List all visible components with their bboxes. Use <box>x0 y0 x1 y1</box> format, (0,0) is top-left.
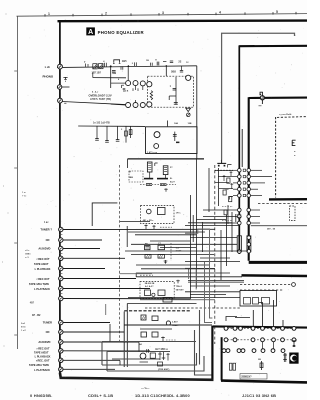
component column left of CN1 <box>223 175 226 181</box>
wire pair down x124 <box>123 312 125 368</box>
junction dots top wire <box>166 65 168 67</box>
bus dark dashed y310 <box>124 310 190 312</box>
switch contact bar S1-2 <box>157 178 168 180</box>
inductor L1 <box>114 60 120 63</box>
svg-text:AH? 1BB: AH? 1BB <box>155 348 165 351</box>
shield box C top edge <box>249 97 307 100</box>
resistor R3 zigzag <box>150 91 152 100</box>
dashed rail vertical x119 <box>119 165 121 344</box>
riaa res drop 4 <box>125 126 127 142</box>
extra marks top wire <box>151 63 153 66</box>
mesh vertical wires <box>190 195 192 299</box>
resistor R8 in TPA <box>158 290 165 296</box>
transistor Q11 <box>154 144 159 149</box>
svg-text:1B5: 1B5 <box>122 59 127 63</box>
svg-text:OVERLOAD? 2.2V: OVERLOAD? 2.2V <box>89 93 112 97</box>
wire drop from out <box>127 159 129 168</box>
svg-text:15B: 15B <box>188 123 192 125</box>
heavy bus H0 right <box>269 198 307 201</box>
svg-text:1BB: 1BB <box>112 73 117 75</box>
wire rec out L <box>63 257 125 259</box>
ground GND1 <box>221 160 223 164</box>
routing loop lines bottom-left <box>102 341 196 343</box>
sheet ruler left border <box>16 16 18 349</box>
wire out bottom <box>128 158 204 160</box>
svg-text:L PLAYBACK: L PLAYBACK <box>35 355 51 358</box>
svg-text:TUNER ?: TUNER ? <box>40 228 52 232</box>
mesh vertical wires extra <box>218 168 220 206</box>
wire aux spare L <box>63 298 191 300</box>
capacitor C1 <box>112 69 116 71</box>
svg-text:5HA?: 5HA? <box>176 250 182 253</box>
dashed net line horizontal right <box>277 116 307 119</box>
extra top section marks <box>86 64 89 67</box>
relay box RB1 <box>240 291 277 307</box>
svg-text:1BB1: 1BB1 <box>25 253 31 255</box>
terminal strip row 3 <box>222 349 226 353</box>
resistor R12 <box>152 332 158 337</box>
svg-text:5B8: 5B8 <box>171 69 176 73</box>
capacitor C6 in U1 <box>174 132 176 141</box>
dash marks y275 <box>140 274 153 276</box>
dashed sense line y284 <box>240 284 291 286</box>
dashed box S2 <box>141 206 175 224</box>
wire phono L signal <box>63 66 197 68</box>
transistor Q10 <box>154 132 160 138</box>
transistor Q6 <box>140 103 145 108</box>
label box output transistors <box>240 374 267 379</box>
board outline top edge <box>58 19 308 22</box>
svg-text:2B-B2 2B: 2B-B2 2B <box>145 283 155 285</box>
input jack PHONO GND <box>57 85 61 89</box>
svg-text:1 ac: 1 ac <box>44 222 49 224</box>
resistor R13 on wire y301 <box>163 298 172 303</box>
svg-text:CD: CD <box>46 238 50 242</box>
resistor R7 in TPA <box>145 290 151 296</box>
svg-text:TAPE A/EXT: TAPE A/EXT <box>34 263 49 266</box>
speaker terminal T1 <box>289 353 298 364</box>
dashed sense line y290 <box>240 289 284 291</box>
svg-text:TUNER: TUNER <box>43 321 52 325</box>
svg-text:5: 5 <box>276 10 278 14</box>
junction node N1 <box>110 65 112 67</box>
wire tuner L <box>63 228 215 230</box>
svg-text:A?R?L TAB? (7B): A?R?L TAB? (7B) <box>90 98 111 101</box>
svg-text:JJ1C1 03 3N2 6B: JJ1C1 03 3N2 6B <box>242 393 276 398</box>
ground GND3 triangle <box>186 108 191 111</box>
wire out right vertical <box>196 66 198 159</box>
cap C7 under wire <box>181 66 183 71</box>
svg-text:TA?GET: TA?GET <box>176 288 185 291</box>
svg-text:L PLAYBACK: L PLAYBACK <box>34 288 50 291</box>
capacitor pair C10 C11 <box>145 246 151 250</box>
wire eq inner stub <box>169 95 176 97</box>
amp box U1 <box>146 127 198 154</box>
resistor R11 <box>141 332 147 337</box>
dashed box TPA <box>140 282 174 299</box>
output box bottom edge <box>221 381 307 383</box>
pilot lamp P1 <box>147 209 152 214</box>
resistor R4 in S2 <box>158 208 166 215</box>
svg-text:1kB: 1kB <box>174 123 178 125</box>
wires R inputs <box>63 322 110 324</box>
svg-text:—’o—: —’o— <box>141 386 149 390</box>
stub marks near Q rows <box>123 88 125 92</box>
stub Q3 up <box>142 66 144 80</box>
svg-text:PHONO EQUALIZER: PHONO EQUALIZER <box>98 30 145 35</box>
jack J1 on shield box C <box>261 92 263 104</box>
output box inner left edge <box>221 337 223 380</box>
wire riaa bus <box>78 125 145 127</box>
transistor Q4 <box>126 103 131 108</box>
svg-text:(PRE AMP): (PRE AMP) <box>158 368 170 371</box>
svg-text:2-B5?: 2-B5? <box>172 322 179 324</box>
svg-text:1 w?: 1 w? <box>21 330 27 332</box>
capacitor C4 <box>173 87 177 89</box>
transistor Q9 <box>186 75 191 80</box>
wire rec out 2 L <box>63 278 136 280</box>
svg-text:r REC OUT: r REC OUT <box>37 258 50 261</box>
wire exit right y225 <box>251 225 307 227</box>
ruler tick marks top <box>44 14 46 17</box>
svg-text:4 . 4-v: 4 . 4-v <box>92 90 99 93</box>
input jacks L group <box>59 227 63 231</box>
shield box B left edge <box>238 45 240 254</box>
heavy bus H3 right <box>249 261 307 264</box>
svg-text:2 B: 2 B <box>125 91 129 93</box>
wire N1 down <box>110 66 112 88</box>
svg-text:CD: CD <box>46 330 50 334</box>
wire pair x242 <box>241 129 243 167</box>
wire aux L <box>63 248 100 250</box>
riaa cap drop 1 <box>96 126 98 139</box>
ground GND4 <box>164 260 168 264</box>
svg-text:CD5L+ S-1B: CD5L+ S-1B <box>88 393 113 398</box>
capacitor C3 marks <box>170 61 173 63</box>
resistor block R6 <box>158 255 165 259</box>
bus y329 <box>140 328 172 330</box>
board outline left edge <box>59 20 61 374</box>
gray feed x209 <box>210 230 213 318</box>
svg-text:0 HN6D5B.: 0 HN6D5B. <box>30 393 53 398</box>
wire playback 2 L <box>63 288 150 290</box>
wires into terminal rows <box>252 310 254 327</box>
resistor block R5 <box>145 255 151 259</box>
elbow into terminal row <box>226 317 237 322</box>
wire cd L <box>63 239 102 241</box>
relay contacts in RB1 <box>244 298 251 305</box>
relay coil K2 <box>163 166 168 175</box>
tee above TPA <box>176 280 180 284</box>
fuse F1 mark <box>292 341 297 346</box>
component below row3 left <box>283 353 287 362</box>
svg-text:1D-313 C13CHE3DL 4-3B00: 1D-313 C13CHE3DL 4-3B00 <box>135 393 190 398</box>
jack column ticks <box>59 234 62 236</box>
input jack PHONO L <box>57 66 63 68</box>
svg-text:TAPE 1/DA TAPE: TAPE 1/DA TAPE <box>29 283 49 286</box>
dashed stub x171 <box>170 243 172 261</box>
svg-text:3: 3 <box>162 11 164 15</box>
svg-text:1BB: 1BB <box>129 177 134 179</box>
dashed line y203 right <box>258 203 307 205</box>
svg-text:1 4?1.u m: 1 4?1.u m <box>147 151 157 154</box>
wire eq inner vertical <box>175 77 177 105</box>
connector CN3 pins <box>247 236 251 240</box>
svg-text:r y ren RxHt: r y ren RxHt <box>279 113 292 116</box>
dashed rail y184 <box>140 184 176 186</box>
wire shelf y303 <box>127 303 196 305</box>
svg-text:1 w: 1 w <box>22 192 26 194</box>
ruler tick marks left <box>14 70 17 72</box>
stub down x128 to Q1 <box>127 66 129 80</box>
wire link rows <box>135 86 137 90</box>
dashed wire below GND1 <box>215 169 234 171</box>
svg-text:1: 1 <box>48 12 50 16</box>
value label in U1 <box>176 142 179 144</box>
svg-text:A-1 A-2?: A-1 A-2? <box>145 285 154 288</box>
gray routing elbows <box>185 229 210 233</box>
bracket mark right of label <box>122 85 125 88</box>
terminal strip row 2 <box>224 339 297 341</box>
relay coil K1 <box>147 162 152 172</box>
dashed box D right <box>290 206 296 221</box>
svg-text:L PLAYBACK: L PLAYBACK <box>35 268 51 271</box>
resistor pair B1 B2 <box>229 363 232 370</box>
section marker box A <box>86 27 95 35</box>
svg-text:3B: 3B <box>258 359 261 361</box>
svg-text:r REC. OUT: r REC. OUT <box>36 359 50 362</box>
svg-text:B-2?: B-2? <box>170 181 176 183</box>
svg-text:4B?: 4B? <box>30 301 35 304</box>
switch contact bar S1-1 <box>144 178 153 180</box>
riaa cap drop 2 <box>106 126 108 141</box>
gray stub x105 <box>105 304 107 315</box>
svg-text:1P - B2: 1P - B2 <box>32 314 41 317</box>
svg-text:AUX/DVD: AUX/DVD <box>38 340 50 344</box>
transistor Q1 <box>126 81 131 86</box>
capacitor C5 <box>174 102 178 104</box>
svg-text:B 51: B 51 <box>21 326 26 328</box>
svg-text:L ch: L ch <box>45 65 51 69</box>
shield box C left edge <box>248 97 250 261</box>
svg-text:2: 2 <box>105 12 107 16</box>
svg-text:n3 x: n3 x <box>25 250 30 252</box>
relay RL1 bodies <box>237 236 241 252</box>
resistor R2 hatched <box>99 64 103 69</box>
transistor Q5 <box>133 103 138 108</box>
connector CN2 pin rows <box>203 209 237 211</box>
gray stub y273 <box>120 273 153 275</box>
bottom-left amp cluster <box>140 353 146 359</box>
dashed wire y308 <box>145 307 240 309</box>
input jack PHONO R <box>58 98 63 103</box>
gray wire from top x199 <box>199 310 201 365</box>
svg-text:AUX/DVD: AUX/DVD <box>38 247 50 251</box>
svg-text:r REC OUT: r REC OUT <box>37 347 50 350</box>
wire q-row link lower <box>111 103 126 106</box>
resistor R10 <box>152 316 158 321</box>
dashed box IC2 eq network <box>148 76 194 107</box>
extra marks bottom-left cluster <box>147 349 149 353</box>
symbol slash mark above U1 <box>187 113 191 117</box>
component drop x261 <box>261 361 263 370</box>
svg-text:TAPE 2/DA TAPE: TAPE 2/DA TAPE <box>29 364 49 367</box>
riaa res drop 5 <box>130 126 132 138</box>
capacitor C2 on wire <box>156 62 158 66</box>
terminal strip row 1 <box>224 327 297 329</box>
tee marks below S2 <box>144 225 147 230</box>
svg-text:1n 152 1u3 47B: 1n 152 1u3 47B <box>93 122 110 125</box>
tee below R12 <box>161 337 165 343</box>
transistor Q2 <box>133 81 138 86</box>
scan speckle noise <box>111 70 114 73</box>
wire phono R signal <box>62 102 125 105</box>
svg-text:4: 4 <box>219 11 221 15</box>
scan speck marks left margin <box>6 14 7 15</box>
svg-text:TPA-2: TPA-2 <box>176 285 183 288</box>
wire stub down x167 <box>165 66 167 76</box>
heavy bus H4 right <box>242 274 308 277</box>
stub into U1 top <box>167 121 169 127</box>
dashed cluster right of x119 <box>129 171 143 182</box>
svg-text:1B: 1B <box>146 60 149 62</box>
connector CN1 pin rows <box>233 169 237 171</box>
wire row y297 <box>128 297 240 299</box>
gray feed x204 <box>205 262 213 323</box>
output box left edge <box>211 326 213 379</box>
transistor Q3 <box>140 81 145 86</box>
sheet ruler top border <box>17 14 308 17</box>
svg-text:TAPE A/EXT: TAPE A/EXT <box>34 351 49 354</box>
board outline bottom edge left block <box>60 373 214 380</box>
svg-text:1Prn: 1Prn <box>176 212 181 215</box>
svg-text:2SB815/?: 2SB815/? <box>241 377 252 379</box>
mesh horizontal wires <box>185 225 240 227</box>
plus node mark lower <box>147 104 150 107</box>
resistor R9 <box>141 315 146 320</box>
svg-text:r REC OUT: r REC OUT <box>37 278 50 281</box>
transistor Q7 <box>147 82 152 87</box>
output box top edge <box>212 326 307 327</box>
contact marks S1 <box>146 184 152 186</box>
shield box B top edge <box>239 45 307 48</box>
wire elbow rec bus <box>92 203 117 226</box>
wire bus y269 <box>141 268 215 270</box>
input jacks R group <box>59 320 63 324</box>
resistor R1 hatched <box>93 64 97 69</box>
node E mark <box>292 140 295 145</box>
shield wire W1 gray <box>222 33 295 159</box>
svg-text:A: A <box>88 29 93 36</box>
ground GND2 phono <box>63 77 67 81</box>
svg-text:L PLAYBACK: L PLAYBACK <box>34 369 50 372</box>
svg-text:2B? - 1B: 2B? - 1B <box>267 228 276 230</box>
tee node below S1 <box>164 188 168 192</box>
wire base bus <box>93 77 126 79</box>
svg-text:AB: AB <box>145 242 149 245</box>
component top of V1 <box>237 215 241 217</box>
transistor Q8 <box>147 102 152 107</box>
wire q-row link upper <box>111 82 126 84</box>
svg-text:B-: B- <box>170 178 173 180</box>
marks left of CN1 <box>230 171 233 176</box>
wire stubs y170-194 left <box>215 170 233 172</box>
plus node mark upper <box>147 83 150 86</box>
transistor Q12 <box>166 321 170 325</box>
svg-text:? 1e: ? 1e <box>22 195 27 197</box>
wire bottom joins <box>109 324 111 342</box>
mesh dashed vertical x215 <box>214 165 216 344</box>
wire playback L <box>63 268 105 270</box>
riaa cap drop 3 <box>117 126 119 139</box>
dashed net line vertical right <box>275 117 277 198</box>
wire shelf y325 <box>124 324 212 326</box>
svg-text:PHONO: PHONO <box>43 75 54 79</box>
